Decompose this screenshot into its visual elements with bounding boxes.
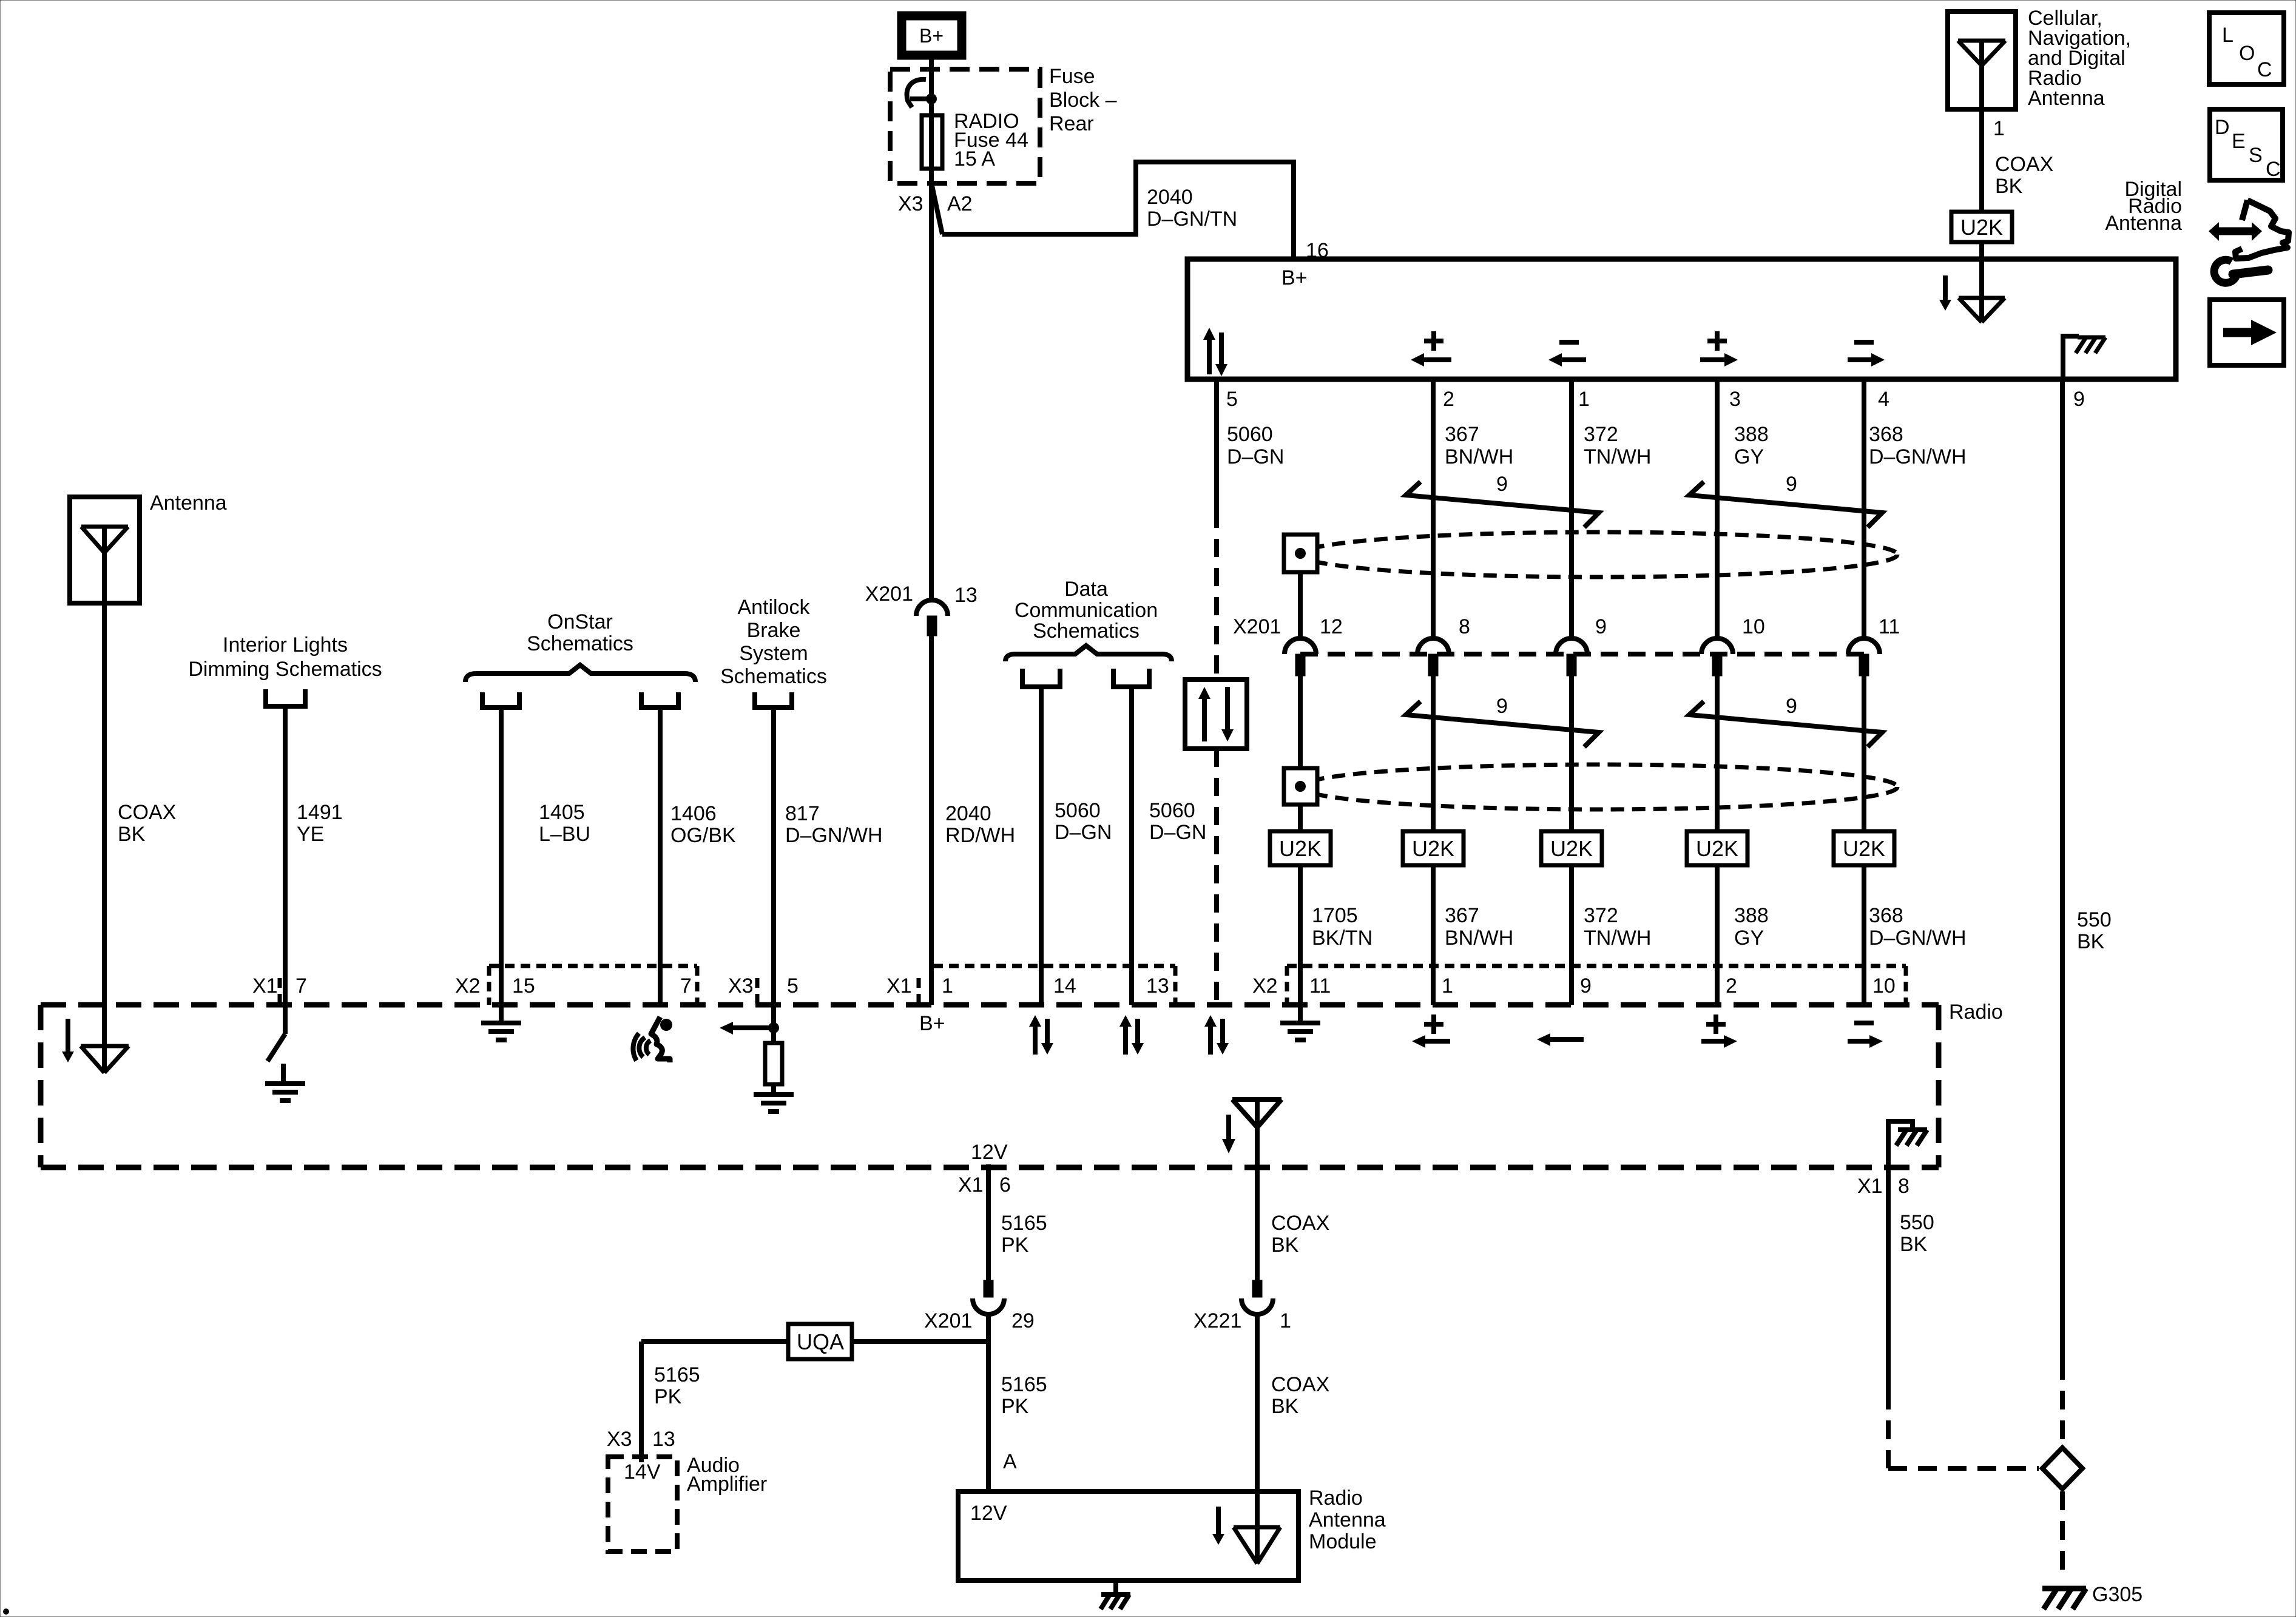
svg-text:550: 550 xyxy=(2077,908,2112,931)
svg-text:367: 367 xyxy=(1445,423,1479,446)
svg-text:E: E xyxy=(2232,130,2246,153)
svg-text:14V: 14V xyxy=(624,1460,661,1484)
svg-text:G305: G305 xyxy=(2092,1583,2142,1606)
svg-text:550: 550 xyxy=(1900,1211,1934,1234)
svg-text:U2K: U2K xyxy=(1960,215,2003,240)
svg-text:7: 7 xyxy=(680,974,692,998)
svg-text:X201: X201 xyxy=(1233,615,1281,638)
svg-text:BK: BK xyxy=(2077,930,2105,953)
svg-text:8: 8 xyxy=(1459,615,1470,638)
svg-text:D–GN: D–GN xyxy=(1055,821,1112,844)
svg-text:Schematics: Schematics xyxy=(1033,619,1140,643)
svg-text:11: 11 xyxy=(1309,974,1331,998)
svg-text:PK: PK xyxy=(1001,1234,1029,1257)
svg-text:368: 368 xyxy=(1869,423,1903,446)
svg-text:TN/WH: TN/WH xyxy=(1584,927,1651,950)
svg-text:D–GN: D–GN xyxy=(1227,445,1284,468)
svg-text:13: 13 xyxy=(1146,974,1169,998)
svg-text:UQA: UQA xyxy=(797,1329,844,1354)
svg-text:9: 9 xyxy=(2073,388,2085,411)
svg-text:Block –: Block – xyxy=(1049,89,1117,112)
svg-text:X2: X2 xyxy=(1252,974,1278,998)
svg-text:15: 15 xyxy=(512,974,535,998)
svg-text:5060: 5060 xyxy=(1149,799,1195,822)
svg-text:GY: GY xyxy=(1734,927,1764,950)
svg-text:X221: X221 xyxy=(1194,1309,1241,1332)
svg-text:BK: BK xyxy=(118,823,146,846)
svg-text:BK: BK xyxy=(1271,1395,1299,1418)
svg-text:1405: 1405 xyxy=(539,801,585,824)
svg-text:Brake: Brake xyxy=(747,619,801,642)
svg-text:29: 29 xyxy=(1011,1309,1035,1332)
svg-text:COAX: COAX xyxy=(1995,153,2053,176)
svg-text:Antenna: Antenna xyxy=(2105,212,2182,235)
svg-text:5060: 5060 xyxy=(1227,423,1273,446)
svg-text:BK/TN: BK/TN xyxy=(1312,927,1373,950)
svg-text:X3: X3 xyxy=(728,974,754,998)
svg-text:D–GN/WH: D–GN/WH xyxy=(1869,445,1967,468)
svg-text:11: 11 xyxy=(1879,615,1900,638)
svg-text:1: 1 xyxy=(1280,1309,1291,1332)
svg-text:B+: B+ xyxy=(919,1012,945,1035)
svg-text:U2K: U2K xyxy=(1412,836,1454,861)
svg-text:BN/WH: BN/WH xyxy=(1445,445,1513,468)
svg-text:Dimming Schematics: Dimming Schematics xyxy=(188,658,382,681)
svg-text:Data: Data xyxy=(1064,578,1108,601)
svg-text:12V: 12V xyxy=(971,1141,1008,1164)
svg-text:1: 1 xyxy=(1442,974,1453,998)
svg-text:1: 1 xyxy=(1578,388,1590,411)
svg-text:A2: A2 xyxy=(947,192,973,215)
svg-text:388: 388 xyxy=(1734,423,1769,446)
svg-text:B+: B+ xyxy=(1281,266,1308,289)
svg-text:System: System xyxy=(739,642,808,665)
svg-text:X1: X1 xyxy=(886,974,912,998)
svg-text:Radio: Radio xyxy=(1949,1001,2003,1024)
svg-text:COAX: COAX xyxy=(1271,1373,1329,1396)
svg-text:6: 6 xyxy=(999,1173,1011,1197)
svg-text:7: 7 xyxy=(295,974,307,998)
svg-text:COAX: COAX xyxy=(118,801,176,824)
svg-text:Antenna: Antenna xyxy=(1309,1508,1386,1531)
svg-text:U2K: U2K xyxy=(1279,836,1322,861)
svg-text:1705: 1705 xyxy=(1312,904,1358,927)
svg-text:388: 388 xyxy=(1734,904,1769,927)
svg-text:Antenna: Antenna xyxy=(2028,87,2105,110)
svg-text:D–GN: D–GN xyxy=(1149,821,1206,844)
svg-text:RD/WH: RD/WH xyxy=(945,824,1015,847)
svg-text:X1: X1 xyxy=(1857,1175,1883,1198)
svg-text:D–GN/TN: D–GN/TN xyxy=(1147,208,1237,231)
svg-text:U2K: U2K xyxy=(1843,836,1885,861)
svg-text:X201: X201 xyxy=(924,1309,972,1332)
svg-text:D–GN/WH: D–GN/WH xyxy=(785,824,883,847)
svg-text:PK: PK xyxy=(1001,1395,1029,1418)
svg-text:COAX: COAX xyxy=(1271,1212,1329,1235)
svg-text:4: 4 xyxy=(1878,388,1889,411)
svg-text:Communication: Communication xyxy=(1015,599,1158,622)
svg-text:Radio: Radio xyxy=(1309,1487,1363,1510)
svg-text:1: 1 xyxy=(942,974,953,998)
svg-text:TN/WH: TN/WH xyxy=(1584,445,1651,468)
svg-text:X3: X3 xyxy=(607,1428,632,1451)
svg-text:13: 13 xyxy=(652,1428,675,1451)
svg-text:2: 2 xyxy=(1726,974,1737,998)
svg-text:12V: 12V xyxy=(970,1502,1007,1525)
svg-text:BK: BK xyxy=(1271,1234,1299,1257)
svg-text:X1: X1 xyxy=(958,1173,984,1197)
svg-text:9: 9 xyxy=(1580,974,1592,998)
svg-text:U2K: U2K xyxy=(1550,836,1593,861)
svg-text:X3: X3 xyxy=(898,192,923,215)
svg-text:BK: BK xyxy=(1900,1233,1928,1256)
svg-text:Rear: Rear xyxy=(1049,112,1094,135)
svg-text:5165: 5165 xyxy=(654,1363,700,1386)
svg-text:1: 1 xyxy=(1993,117,2005,140)
svg-text:9: 9 xyxy=(1595,615,1607,638)
svg-text:2040: 2040 xyxy=(945,802,991,825)
svg-text:C: C xyxy=(2257,58,2272,81)
svg-text:10: 10 xyxy=(1742,615,1765,638)
svg-text:13: 13 xyxy=(954,584,977,607)
svg-text:OG/BK: OG/BK xyxy=(670,824,736,847)
svg-text:372: 372 xyxy=(1584,423,1618,446)
svg-text:1491: 1491 xyxy=(297,801,343,824)
svg-text:YE: YE xyxy=(297,823,324,846)
svg-text:368: 368 xyxy=(1869,904,1903,927)
svg-text:S: S xyxy=(2249,144,2263,167)
svg-text:1406: 1406 xyxy=(670,802,717,825)
svg-text:L–BU: L–BU xyxy=(539,823,590,846)
svg-text:2040: 2040 xyxy=(1147,186,1193,209)
svg-text:3: 3 xyxy=(1729,388,1741,411)
svg-text:PK: PK xyxy=(654,1385,682,1408)
svg-text:Antenna: Antenna xyxy=(150,491,227,515)
svg-text:9: 9 xyxy=(1496,695,1508,718)
svg-text:X1: X1 xyxy=(252,974,278,998)
svg-text:X201: X201 xyxy=(865,582,913,606)
svg-text:5165: 5165 xyxy=(1001,1212,1047,1235)
svg-text:D–GN/WH: D–GN/WH xyxy=(1869,927,1967,950)
svg-text:367: 367 xyxy=(1445,904,1479,927)
svg-text:Antilock: Antilock xyxy=(737,596,810,619)
svg-text:14: 14 xyxy=(1053,974,1076,998)
svg-text:Interior Lights: Interior Lights xyxy=(223,633,348,657)
svg-text:U2K: U2K xyxy=(1696,836,1738,861)
svg-text:Module: Module xyxy=(1309,1530,1377,1553)
svg-text:817: 817 xyxy=(785,802,820,825)
svg-text:9: 9 xyxy=(1786,473,1797,496)
svg-text:BN/WH: BN/WH xyxy=(1445,927,1513,950)
svg-text:OnStar: OnStar xyxy=(547,610,613,633)
svg-text:10: 10 xyxy=(1872,974,1896,998)
svg-text:9: 9 xyxy=(1496,473,1508,496)
svg-text:GY: GY xyxy=(1734,445,1764,468)
svg-text:12: 12 xyxy=(1320,615,1343,638)
svg-text:X2: X2 xyxy=(455,974,481,998)
svg-text:L: L xyxy=(2222,24,2234,47)
svg-text:9: 9 xyxy=(1786,695,1797,718)
svg-text:8: 8 xyxy=(1898,1175,1909,1198)
svg-text:Schematics: Schematics xyxy=(720,665,827,688)
svg-text:C: C xyxy=(2266,158,2281,181)
svg-text:372: 372 xyxy=(1584,904,1618,927)
svg-text:Schematics: Schematics xyxy=(527,632,633,655)
svg-text:5: 5 xyxy=(1226,388,1238,411)
svg-text:O: O xyxy=(2239,42,2255,65)
svg-text:Amplifier: Amplifier xyxy=(687,1473,767,1496)
svg-text:BK: BK xyxy=(1995,175,2023,198)
svg-text:D: D xyxy=(2215,116,2230,139)
svg-text:5: 5 xyxy=(787,974,799,998)
svg-text:5165: 5165 xyxy=(1001,1373,1047,1396)
svg-text:5060: 5060 xyxy=(1055,799,1101,822)
svg-text:2: 2 xyxy=(1443,388,1454,411)
svg-text:A: A xyxy=(1003,1450,1017,1473)
svg-text:15 A: 15 A xyxy=(954,147,995,170)
svg-text:B+: B+ xyxy=(919,25,944,47)
svg-text:Fuse: Fuse xyxy=(1049,65,1095,88)
